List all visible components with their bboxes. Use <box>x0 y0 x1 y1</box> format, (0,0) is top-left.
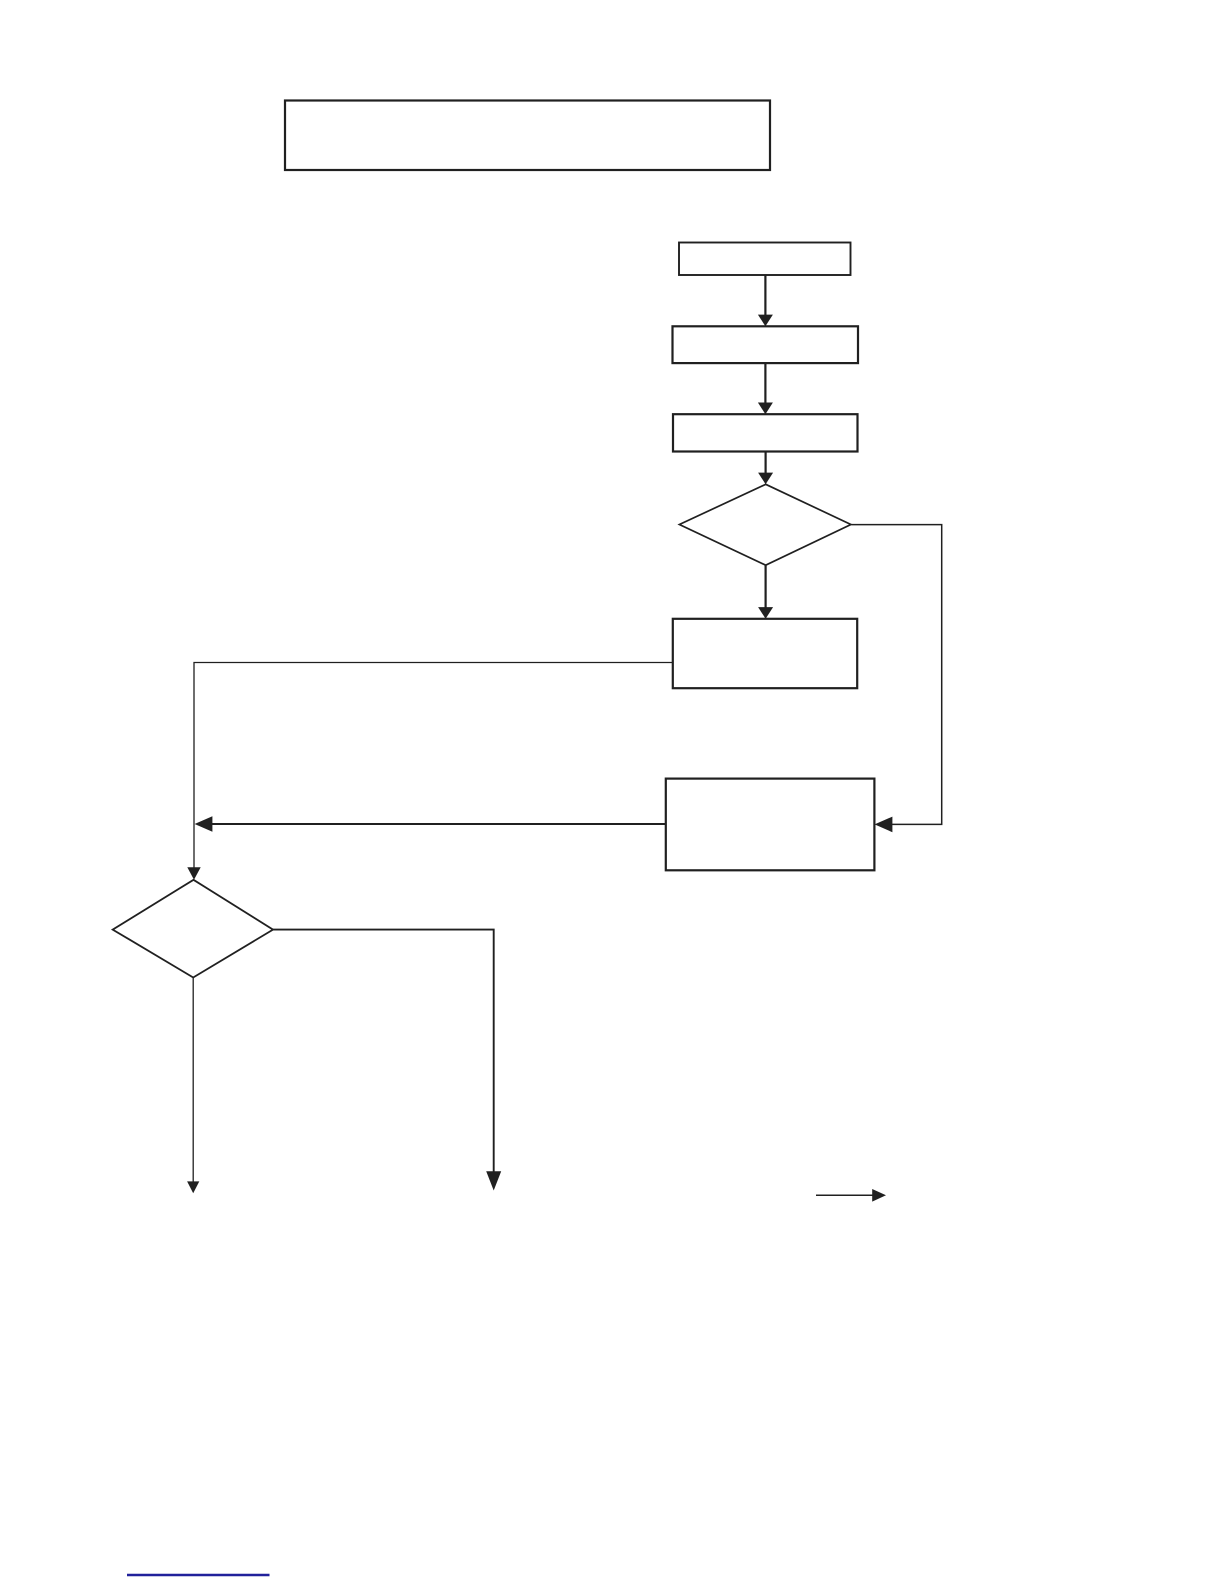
title box (large empty rectangle at top) <box>285 101 770 171</box>
arrowhead into P2 <box>758 315 773 327</box>
wire P1 to P2 <box>764 275 766 316</box>
wire P3 to decision D1 <box>764 452 766 474</box>
arrowhead of legend arrow <box>872 1189 886 1202</box>
process box P5 <box>666 779 875 871</box>
wire D1 to P4 <box>764 565 766 608</box>
wire loop from D1 right vertex to box P5 (right side) <box>851 525 941 825</box>
blue hyperlink underline at page bottom <box>127 1574 270 1577</box>
wire from D2 right vertex, down to arrow <box>273 930 494 1172</box>
long arrow from P5 left edge to left rail <box>210 823 666 825</box>
decision diamond D2 <box>113 880 273 978</box>
process box P3 <box>673 414 858 451</box>
wire P2 to P3 <box>764 363 766 403</box>
small arrowhead down (left branch terminal) <box>187 1181 199 1193</box>
process box P4 <box>673 619 857 688</box>
decision diamond D1 <box>679 484 851 565</box>
arrowhead into P4 <box>758 607 773 619</box>
arrowhead into D1 <box>758 473 773 485</box>
arrowhead into D2 top <box>187 867 200 880</box>
wire from P4 left edge, left rail down to decision D2 <box>194 663 673 868</box>
process box P1 (small top box) <box>679 243 851 276</box>
arrowhead into P5 right edge <box>875 817 893 833</box>
wire from D2 bottom vertex straight down <box>192 978 194 1183</box>
arrowhead pointing left at rail <box>195 816 213 832</box>
small stand-alone arrow pointing right (legend) <box>816 1194 873 1196</box>
arrowhead into P3 <box>758 403 773 415</box>
arrowhead down (right branch terminal) <box>486 1171 501 1190</box>
process box P2 <box>673 326 859 363</box>
